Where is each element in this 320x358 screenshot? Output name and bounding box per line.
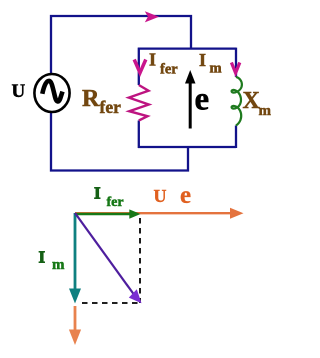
svg-text:R: R [82,86,100,112]
source U (AC source circle) [34,74,69,112]
wire: inner box bottom [138,146,236,148]
svg-text:e: e [180,182,191,209]
current arrow I_fer (down) on left branch [134,60,146,73]
svg-text:I: I [39,248,46,267]
wire: outer loop bottom (source bottom to inner box bottom) [51,111,188,171]
svg-text:e: e [195,82,210,118]
current arrow I0 on top wire [145,11,159,22]
phasor I0 (purple, diagonal) [75,213,135,296]
dashed projection vertical [139,218,141,303]
resistor R_fer zigzag [129,85,149,121]
svg-text:m: m [259,103,272,119]
emf arrow e (up) [189,82,192,129]
wire: outer loop top (source top to feed point) [51,16,191,75]
svg-text:I: I [94,184,101,203]
dashed projection horizontal [82,302,141,304]
svg-text:I: I [199,50,206,70]
phasor flux arrow (orange, down) [74,306,77,331]
phasor I_m (teal, down) [74,213,77,290]
svg-text:m: m [210,61,222,77]
wire: inner box top [138,47,236,49]
wire: right branch lower stub [235,126,237,149]
svg-text:U: U [12,81,26,102]
phasor U/e axis (orange, right) [75,212,234,214]
svg-text:fer: fer [160,62,178,78]
inductor X_m coil [232,77,242,126]
svg-text:U: U [154,186,167,206]
wire: left branch lower stub [138,121,140,149]
phasor I_fer (green, right) [75,213,131,215]
wire: left branch upper stub [138,48,140,85]
svg-text:m: m [52,257,65,273]
wire: right branch upper stub [235,48,237,77]
current arrow I_m (down) on right branch [231,63,239,74]
svg-text:I: I [149,50,156,70]
svg-text:fer: fer [107,195,124,210]
svg-text:fer: fer [100,97,122,117]
sine glyph inside source [42,81,62,102]
